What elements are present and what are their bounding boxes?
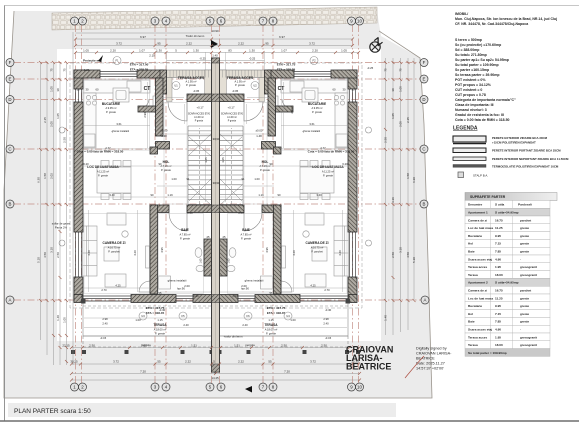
svg-text:CF. NR. 344478, Nr. Cad.344478: CF. NR. 344478, Nr. Cad.344478/Cluj-Napo… xyxy=(455,22,528,26)
svg-text:Numarul nivelurl: 3: Numarul nivelurl: 3 xyxy=(455,108,487,112)
svg-text:BAIE: BAIE xyxy=(242,228,250,232)
svg-text:IMOBIL/: IMOBIL/ xyxy=(455,12,468,16)
svg-text:F: F xyxy=(9,60,12,65)
svg-text:1.30: 1.30 xyxy=(193,49,199,53)
svg-text:75: 75 xyxy=(50,68,54,72)
svg-text:BUCATARIE: BUCATARIE xyxy=(102,102,120,106)
svg-text:-0.15: -0.15 xyxy=(100,336,107,340)
svg-text:3.40: 3.40 xyxy=(316,193,322,197)
svg-text:Sd = 388.00mp: Sd = 388.00mp xyxy=(455,48,479,52)
svg-text:BEATRICE: BEATRICE xyxy=(346,362,391,372)
svg-text:2.00: 2.00 xyxy=(238,211,244,215)
svg-text:30: 30 xyxy=(391,88,395,92)
svg-text:75: 75 xyxy=(399,68,403,72)
svg-text:2.00: 2.00 xyxy=(232,294,238,298)
svg-text:4.95: 4.95 xyxy=(265,247,269,253)
svg-text:PERETE INTERIOR NEPORTANT ZID: PERETE INTERIOR NEPORTANT ZIDARIE BCA 11… xyxy=(492,157,569,161)
svg-text:2.40: 2.40 xyxy=(242,323,248,327)
svg-text:6.30: 6.30 xyxy=(412,177,416,183)
svg-text:2.00: 2.00 xyxy=(184,284,190,288)
svg-text:90: 90 xyxy=(270,162,273,166)
svg-text:30: 30 xyxy=(56,88,60,92)
svg-text:Apartament 1: Apartament 1 xyxy=(468,211,488,215)
svg-text:gresogranit: gresogranit xyxy=(520,335,537,339)
svg-text:25: 25 xyxy=(223,235,226,239)
svg-text:Hol: Hol xyxy=(468,312,473,316)
svg-text:Loc de luat masa: Loc de luat masa xyxy=(468,226,493,230)
svg-text:2.70: 2.70 xyxy=(101,288,107,292)
svg-text:2.02: 2.02 xyxy=(50,173,54,179)
svg-text:75: 75 xyxy=(63,68,67,72)
svg-text:91: 91 xyxy=(187,177,190,181)
svg-text:P. parchet: P. parchet xyxy=(311,250,323,254)
svg-text:-0.05: -0.05 xyxy=(193,89,200,93)
svg-text:Scara acces etaj: Scara acces etaj xyxy=(468,257,492,261)
svg-text:U4: U4 xyxy=(286,314,290,318)
svg-text:30: 30 xyxy=(213,42,217,46)
svg-text:A 4.90 m²: A 4.90 m² xyxy=(227,116,237,119)
svg-text:gresogranit: gresogranit xyxy=(520,343,537,347)
svg-text:P gresie: P gresie xyxy=(195,120,204,123)
svg-text:CRAIOVAN LARISA-: CRAIOVAN LARISA- xyxy=(416,352,452,356)
svg-text:1.07: 1.07 xyxy=(281,49,287,53)
svg-text:STALP B.A.: STALP B.A. xyxy=(473,174,488,178)
svg-text:2.10: 2.10 xyxy=(149,54,155,58)
svg-text:18.00: 18.00 xyxy=(495,273,503,277)
svg-text:75: 75 xyxy=(384,68,388,72)
svg-text:A: A xyxy=(424,298,427,303)
svg-text:gresogranit: gresogranit xyxy=(520,265,537,269)
svg-text:P. gresie: P. gresie xyxy=(323,174,333,178)
svg-text:BAIE: BAIE xyxy=(181,228,189,232)
svg-text:A 4.90 m²: A 4.90 m² xyxy=(194,116,204,119)
svg-text:91: 91 xyxy=(242,177,245,181)
svg-text:S teren = 500mp: S teren = 500mp xyxy=(455,38,482,42)
svg-text:1.40: 1.40 xyxy=(384,315,388,321)
svg-text:4.90: 4.90 xyxy=(495,257,501,261)
svg-text:A 9.95 m²: A 9.95 m² xyxy=(311,106,322,110)
svg-text:TERASA ACCES: TERASA ACCES xyxy=(227,76,254,80)
svg-text:3.05: 3.05 xyxy=(221,157,225,163)
svg-text:Panta 2%: Panta 2% xyxy=(55,226,68,230)
svg-text:+15CM POLISTIREN EXPANDAT: +15CM POLISTIREN EXPANDAT xyxy=(492,141,536,145)
svg-text:P. gresie: P. gresie xyxy=(186,83,196,87)
svg-text:6.97: 6.97 xyxy=(140,35,146,39)
svg-text:-0.30: -0.30 xyxy=(159,308,166,312)
svg-text:P gresie: P gresie xyxy=(228,120,237,123)
svg-text:5.10: 5.10 xyxy=(37,257,41,263)
svg-text:-: - xyxy=(520,257,521,261)
svg-text:4.90: 4.90 xyxy=(495,328,501,332)
svg-text:4.50: 4.50 xyxy=(406,252,410,258)
svg-text:4.95: 4.95 xyxy=(160,247,164,253)
svg-text:22,15: 22,15 xyxy=(62,344,70,348)
svg-text:1.00: 1.00 xyxy=(290,318,296,322)
svg-text:2.40: 2.40 xyxy=(323,322,329,326)
svg-text:2.70: 2.70 xyxy=(324,288,330,292)
svg-text:-: - xyxy=(520,328,521,332)
svg-text:ETA = 318.25: ETA = 318.25 xyxy=(277,68,296,72)
svg-text:1.05: 1.05 xyxy=(391,113,395,119)
svg-text:2.50: 2.50 xyxy=(391,252,395,258)
svg-text:-0.25: -0.25 xyxy=(83,68,90,72)
svg-text:1.60: 1.60 xyxy=(200,258,203,263)
svg-text:CUT existent = 0: CUT existent = 0 xyxy=(455,88,482,92)
svg-text:Su parter ap1= Su ap2= 54.95mp: Su parter ap1= Su ap2= 54.95mp xyxy=(455,58,509,62)
svg-text:Sc (cu proiectie) =170.60mp: Sc (cu proiectie) =170.60mp xyxy=(455,43,501,47)
svg-text:Categoria de importanta normal: Categoria de importanta normala"C" xyxy=(455,98,516,102)
svg-text:LEGENDA: LEGENDA xyxy=(453,126,478,132)
svg-text:-0.25: -0.25 xyxy=(199,57,206,61)
svg-text:Terasa: Terasa xyxy=(468,343,478,347)
svg-text:2.22: 2.22 xyxy=(186,42,192,46)
svg-text:2.50: 2.50 xyxy=(56,252,60,258)
svg-text:-ghena instalatii: -ghena instalatii xyxy=(111,129,130,133)
svg-text:ghena instalatii: ghena instalatii xyxy=(168,279,187,283)
svg-text:P. gresie: P. gresie xyxy=(98,174,108,178)
svg-text:55: 55 xyxy=(268,360,272,364)
svg-text:90: 90 xyxy=(151,193,154,197)
svg-text:-0.30: -0.30 xyxy=(325,308,332,312)
svg-text:2.50: 2.50 xyxy=(384,137,388,143)
svg-text:Baie: Baie xyxy=(468,250,475,254)
svg-text:1.40: 1.40 xyxy=(56,315,60,321)
svg-text:2.22: 2.22 xyxy=(238,42,244,46)
svg-text:2.77: 2.77 xyxy=(320,146,326,150)
svg-text:1.00: 1.00 xyxy=(254,177,260,181)
svg-text:A 7.85 m²: A 7.85 m² xyxy=(240,233,251,237)
svg-text:LOC DE LUAT MASA: LOC DE LUAT MASA xyxy=(312,165,344,169)
svg-text:Denumire: Denumire xyxy=(468,203,483,207)
svg-text:P. parchet: P. parchet xyxy=(108,250,120,254)
svg-text:1.51: 1.51 xyxy=(234,344,240,348)
svg-text:1.15: 1.15 xyxy=(268,318,274,322)
svg-text:-ghena instalatii: -ghena instalatii xyxy=(302,129,321,133)
svg-text:11.25: 11.25 xyxy=(495,296,503,300)
svg-text:P. gresie: P. gresie xyxy=(235,83,245,87)
svg-text:10: 10 xyxy=(357,385,362,390)
svg-text:1.58: 1.58 xyxy=(406,173,410,179)
svg-text:1.40: 1.40 xyxy=(212,54,218,58)
svg-text:2.90: 2.90 xyxy=(143,112,147,118)
svg-text:P. gresie: P. gresie xyxy=(180,237,190,241)
svg-text:ETN = 317.75: ETN = 317.75 xyxy=(277,63,296,67)
svg-text:ETA = 318.25: ETA = 318.25 xyxy=(130,68,149,72)
svg-text:9.95: 9.95 xyxy=(495,304,501,308)
svg-text:gresie: gresie xyxy=(520,226,529,230)
svg-text:Gradul de rezistenta la foc: I: Gradul de rezistenta la foc: III xyxy=(455,113,504,117)
svg-text:B: B xyxy=(9,202,12,207)
svg-text:1.60: 1.60 xyxy=(228,258,231,263)
svg-text:A 7.85 m²: A 7.85 m² xyxy=(179,233,190,237)
svg-text:+0.17: +0.17 xyxy=(227,106,235,110)
svg-text:SCARA ACCES ETAJ: SCARA ACCES ETAJ xyxy=(221,113,243,116)
svg-text:gresie: gresie xyxy=(520,234,529,238)
svg-text:A 18.00 m²: A 18.00 m² xyxy=(154,328,167,332)
svg-text:1.05: 1.05 xyxy=(63,317,67,323)
svg-text:U3: U3 xyxy=(141,314,145,318)
svg-text:2.98: 2.98 xyxy=(323,317,329,321)
svg-text:HOL: HOL xyxy=(163,160,170,164)
svg-text:P. gresie: P. gresie xyxy=(266,332,276,336)
svg-text:Scara acces etaj: Scara acces etaj xyxy=(468,328,492,332)
svg-text:1.30: 1.30 xyxy=(156,49,162,53)
svg-text:30|30: 30|30 xyxy=(213,137,220,141)
svg-text:4.20: 4.20 xyxy=(133,250,137,256)
svg-text:10: 10 xyxy=(357,19,362,24)
svg-text:P. gresie: P. gresie xyxy=(241,237,251,241)
svg-text:3.72: 3.72 xyxy=(309,42,315,46)
svg-text:A 16.75 m²: A 16.75 m² xyxy=(311,246,324,250)
svg-text:±0.00: ±0.00 xyxy=(256,129,263,133)
svg-text:Sc terasa parter = 39.90mp: Sc terasa parter = 39.90mp xyxy=(455,73,499,77)
svg-text:CAMERA DE ZI: CAMERA DE ZI xyxy=(103,241,126,245)
svg-text:7.20: 7.20 xyxy=(284,370,290,374)
svg-text:83: 83 xyxy=(228,49,232,53)
svg-text:7.20: 7.20 xyxy=(140,370,146,374)
svg-text:ETA = 318.45: ETA = 318.45 xyxy=(267,311,286,315)
svg-text:55: 55 xyxy=(270,291,273,295)
svg-text:gresie: gresie xyxy=(520,320,529,324)
svg-text:P. gresie: P. gresie xyxy=(161,168,171,172)
svg-text:95: 95 xyxy=(265,42,269,46)
svg-text:gresie: gresie xyxy=(520,250,529,254)
svg-text:2.50: 2.50 xyxy=(63,137,67,143)
svg-text:Su total parter = 109.90mp: Su total parter = 109.90mp xyxy=(455,63,499,67)
svg-text:P. gresie: P. gresie xyxy=(155,332,165,336)
svg-text:A 16.75 m²: A 16.75 m² xyxy=(108,246,121,250)
svg-text:2.90: 2.90 xyxy=(290,108,294,114)
svg-text:Clasa de importanta: III: Clasa de importanta: III xyxy=(455,103,494,107)
svg-text:3.61: 3.61 xyxy=(309,122,315,126)
svg-text:1.00: 1.00 xyxy=(135,318,141,322)
svg-text:Date: 2025.11.27: Date: 2025.11.27 xyxy=(416,362,445,366)
svg-text:2.22: 2.22 xyxy=(185,360,191,364)
svg-text:30: 30 xyxy=(86,88,89,92)
svg-text:CAMERA DE ZI: CAMERA DE ZI xyxy=(306,241,329,245)
svg-text:2.15: 2.15 xyxy=(43,117,47,123)
svg-text:4.25: 4.25 xyxy=(310,284,316,288)
svg-text:1.19: 1.19 xyxy=(258,193,264,197)
svg-text:1.95: 1.95 xyxy=(495,265,501,269)
svg-text:Bucatarie: Bucatarie xyxy=(468,304,482,308)
svg-text:POT propus = 34.12%: POT propus = 34.12% xyxy=(455,83,492,87)
svg-text:2.77: 2.77 xyxy=(105,146,111,150)
svg-text:parchet: parchet xyxy=(520,218,531,222)
svg-text:4.25: 4.25 xyxy=(115,284,121,288)
svg-text:4.20: 4.20 xyxy=(338,250,342,256)
svg-text:18.00: 18.00 xyxy=(495,343,503,347)
svg-text:D: D xyxy=(8,97,11,102)
svg-text:15: 15 xyxy=(77,88,80,92)
svg-text:-0.15: -0.15 xyxy=(325,336,332,340)
svg-text:2.20: 2.20 xyxy=(110,49,116,53)
svg-text:Loc de luat masa: Loc de luat masa xyxy=(468,296,493,300)
svg-text:PERETE INTERIOR PORTANT ZIDAR: PERETE INTERIOR PORTANT ZIDARIE BCA 25CM xyxy=(492,149,561,153)
svg-text:6.97: 6.97 xyxy=(279,35,285,39)
svg-text:3.10: 3.10 xyxy=(399,247,403,253)
svg-text:B: B xyxy=(423,202,426,207)
svg-text:2.05: 2.05 xyxy=(399,121,403,127)
svg-text:P. gresie: P. gresie xyxy=(312,110,322,114)
svg-text:7.15: 7.15 xyxy=(495,312,501,316)
svg-text:2.50: 2.50 xyxy=(89,344,95,348)
svg-text:1.51: 1.51 xyxy=(191,344,197,348)
svg-text:Terasa: Terasa xyxy=(468,273,478,277)
svg-text:3.05: 3.05 xyxy=(204,157,208,163)
svg-text:5.10: 5.10 xyxy=(412,257,416,263)
svg-text:-0.05: -0.05 xyxy=(232,89,239,93)
svg-text:2.00: 2.00 xyxy=(193,294,199,298)
svg-text:90: 90 xyxy=(278,193,281,197)
svg-text:A 1.95 m²: A 1.95 m² xyxy=(234,80,245,84)
svg-text:CT: CT xyxy=(144,86,151,92)
svg-text:1.07: 1.07 xyxy=(139,49,145,53)
svg-text:gresogranit: gresogranit xyxy=(520,273,537,277)
svg-text:-0.25: -0.25 xyxy=(249,57,256,61)
svg-text:4.50: 4.50 xyxy=(43,252,47,258)
svg-text:PLAN PARTER scara 1:50: PLAN PARTER scara 1:50 xyxy=(14,408,91,415)
svg-text:7.85: 7.85 xyxy=(495,320,501,324)
svg-text:±0.00: ±0.00 xyxy=(161,129,168,133)
svg-text:A 1.95 m²: A 1.95 m² xyxy=(185,80,196,84)
svg-text:U2: U2 xyxy=(253,84,257,88)
svg-text:POT existent = 0%: POT existent = 0% xyxy=(455,78,486,82)
svg-text:Su total parter = 109.90mp: Su total parter = 109.90mp xyxy=(468,351,507,355)
svg-text:60: 60 xyxy=(96,88,99,92)
svg-text:7.15: 7.15 xyxy=(495,242,501,246)
svg-text:7.85: 7.85 xyxy=(495,250,501,254)
svg-text:14.45: 14.45 xyxy=(211,376,219,380)
svg-text:Baie: Baie xyxy=(468,320,475,324)
svg-text:A: A xyxy=(9,298,12,303)
svg-text:C: C xyxy=(422,147,425,152)
svg-text:60: 60 xyxy=(333,88,336,92)
svg-text:S utila: S utila xyxy=(495,203,505,207)
svg-text:P. gresie: P. gresie xyxy=(260,168,270,172)
svg-text:1.19: 1.19 xyxy=(167,193,173,197)
svg-text:Cota = 0.00 fata de RMN = 318.: Cota = 0.00 fata de RMN = 318.50 xyxy=(455,118,510,122)
svg-text:1.30: 1.30 xyxy=(249,49,255,53)
svg-text:CUT propus = 0.78: CUT propus = 0.78 xyxy=(455,93,486,97)
svg-text:Apartament 2: Apartament 2 xyxy=(468,281,488,285)
svg-text:3.72: 3.72 xyxy=(310,360,316,364)
svg-text:Bucatarie: Bucatarie xyxy=(468,234,482,238)
svg-text:2.50: 2.50 xyxy=(281,344,287,348)
svg-text:4.20: 4.20 xyxy=(292,250,296,256)
svg-text:14:57:37 +02'00': 14:57:37 +02'00' xyxy=(416,367,444,371)
svg-text:-0.25: -0.25 xyxy=(367,66,374,70)
svg-text:2.50: 2.50 xyxy=(321,344,327,348)
svg-text:1.05: 1.05 xyxy=(399,86,403,92)
svg-text:2.22: 2.22 xyxy=(238,360,244,364)
svg-text:6.20: 6.20 xyxy=(83,162,89,166)
svg-text:2.50: 2.50 xyxy=(141,344,147,348)
svg-text:2.00: 2.00 xyxy=(241,284,247,288)
svg-text:1.05: 1.05 xyxy=(50,86,54,92)
svg-text:1.95: 1.95 xyxy=(495,335,501,339)
svg-text:pergola: pergola xyxy=(245,343,255,347)
svg-text:16.75: 16.75 xyxy=(495,289,503,293)
svg-text:2.40: 2.40 xyxy=(183,323,189,327)
svg-text:90: 90 xyxy=(159,162,162,166)
svg-text:2.00: 2.00 xyxy=(187,211,193,215)
svg-text:D: D xyxy=(422,97,425,102)
svg-text:1.05: 1.05 xyxy=(56,113,60,119)
svg-text:F: F xyxy=(423,60,426,65)
svg-text:95: 95 xyxy=(157,42,161,46)
svg-text:2.15: 2.15 xyxy=(406,117,410,123)
svg-text:3.61: 3.61 xyxy=(116,122,122,126)
svg-text:55: 55 xyxy=(157,360,161,364)
svg-text:A 9.95 m²: A 9.95 m² xyxy=(105,106,116,110)
svg-text:2.05: 2.05 xyxy=(50,121,54,127)
svg-text:2.40: 2.40 xyxy=(102,322,108,326)
svg-text:4.20: 4.20 xyxy=(87,250,91,256)
svg-text:3.72: 3.72 xyxy=(113,360,119,364)
svg-text:1.05: 1.05 xyxy=(83,49,89,53)
svg-text:Mun. Cluj-Napoca, Str. Ion Ion: Mun. Cluj-Napoca, Str. Ion Ionescu de la… xyxy=(455,17,557,21)
svg-text:E: E xyxy=(9,77,12,82)
svg-text:2.20: 2.20 xyxy=(312,49,318,53)
svg-text:SCARA ACCES ETAJ: SCARA ACCES ETAJ xyxy=(188,113,210,116)
svg-text:TERASA: TERASA xyxy=(153,323,167,327)
svg-text:30: 30 xyxy=(343,88,346,92)
svg-text:3.40: 3.40 xyxy=(109,193,115,197)
svg-text:gresie: gresie xyxy=(520,296,529,300)
svg-text:C: C xyxy=(8,147,11,152)
svg-text:gresie: gresie xyxy=(520,304,529,308)
svg-text:13.90: 13.90 xyxy=(211,29,219,33)
svg-text:1.48: 1.48 xyxy=(256,134,262,138)
svg-text:16.75: 16.75 xyxy=(495,218,503,222)
svg-text:30,25: 30,25 xyxy=(70,360,78,364)
svg-text:Sc parter =160.15mp: Sc parter =160.15mp xyxy=(455,68,489,72)
svg-text:SUPRAFETE PARTER: SUPRAFETE PARTER xyxy=(470,195,506,199)
svg-text:1.15: 1.15 xyxy=(157,318,163,322)
svg-text:15: 15 xyxy=(352,88,355,92)
svg-text:30|30: 30|30 xyxy=(213,181,220,185)
svg-text:Digitally signed by: Digitally signed by xyxy=(416,347,447,351)
svg-text:gresie: gresie xyxy=(520,242,529,246)
svg-text:11.25: 11.25 xyxy=(495,226,503,230)
svg-text:Su total= 271.80mp: Su total= 271.80mp xyxy=(455,53,487,57)
svg-text:1.00: 1.00 xyxy=(171,177,177,181)
svg-text:6.20: 6.20 xyxy=(342,162,348,166)
svg-text:3.19: 3.19 xyxy=(391,197,395,203)
svg-text:Terasa acces: Terasa acces xyxy=(468,265,487,269)
svg-text:S utila=54.95mp: S utila=54.95mp xyxy=(495,281,519,285)
svg-text:parchet: parchet xyxy=(520,289,531,293)
svg-text:Hol: Hol xyxy=(468,242,473,246)
svg-text:S utila=54.95mp: S utila=54.95mp xyxy=(495,211,519,215)
svg-text:ghena instalatii: ghena instalatii xyxy=(245,279,264,283)
svg-text:A 18.00 m²: A 18.00 m² xyxy=(265,328,278,332)
svg-text:-trafor din lemn: -trafor din lemn xyxy=(224,335,243,339)
svg-text:E: E xyxy=(423,77,426,82)
svg-text:2.98: 2.98 xyxy=(102,317,108,321)
svg-text:ETN = 317.75: ETN = 317.75 xyxy=(267,306,286,310)
svg-text:Pardoseli: Pardoseli xyxy=(518,203,532,207)
svg-text:U1: U1 xyxy=(174,84,178,88)
svg-text:1.48: 1.48 xyxy=(161,134,167,138)
svg-text:gresie: gresie xyxy=(520,312,529,316)
svg-text:Camera de zi: Camera de zi xyxy=(468,218,487,222)
svg-text:Camera de zi: Camera de zi xyxy=(468,289,487,293)
svg-text:TERASA: TERASA xyxy=(264,323,278,327)
svg-text:BEATRICE: BEATRICE xyxy=(416,357,435,361)
svg-text:P. gresie: P. gresie xyxy=(106,110,116,114)
